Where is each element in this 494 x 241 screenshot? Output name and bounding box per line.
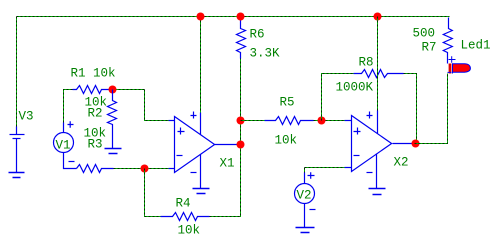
wire R5 left [241,120,265,122]
svg-text:R8: R8 [359,56,374,70]
source V1 [54,121,77,168]
svg-text:R2: R2 [88,107,103,121]
LED Led1 [448,56,471,73]
svg-text:3.3K: 3.3K [250,47,281,61]
svg-text:R7: R7 [422,41,437,55]
svg-text:10k: 10k [275,134,298,148]
svg-text:10k: 10k [178,224,201,238]
wire X1 power up [200,17,202,113]
svg-text:R4: R4 [176,197,191,211]
resistor R1 [73,86,111,94]
battery V3 [10,127,25,173]
wire X2 output to LED chain [415,74,448,144]
resistor R6 [237,17,246,59]
node X1 output [237,141,245,149]
wire R5 to X2 plus input [314,120,345,122]
wire X1 output [215,144,240,146]
node R6 bottom / R5 [237,117,245,125]
wire R8 right riser [404,74,417,144]
op-amp X1 [169,112,215,189]
wire R8 left riser [322,74,354,121]
svg-text:X2: X2 [394,156,409,170]
ground under V3 [9,173,25,178]
svg-text:R1 10k: R1 10k [71,67,116,81]
resistor R2 [108,90,117,149]
node R8 tap [318,117,326,125]
wire R1 left loop [64,90,73,123]
resistor R7 [443,18,452,57]
wire V3 top [16,17,18,127]
svg-text:Led1: Led1 [461,39,491,53]
resistor R3 [77,165,114,173]
svg-text:V3: V3 [19,110,34,124]
ground under X1 [193,189,210,194]
wire top rail [17,16,450,18]
node rail / X2 power [374,13,382,21]
node junction R1/R2 [109,86,117,94]
wire R4 right riser [210,59,241,217]
resistor R4 [161,213,210,221]
svg-text:X1: X1 [220,157,235,171]
svg-text:R5: R5 [280,96,295,110]
svg-text:V2: V2 [297,188,312,202]
ground under X2 [369,189,386,195]
svg-text:R3: R3 [88,138,103,152]
wire R3 to X1 minus input [114,168,169,170]
svg-text:R6: R6 [250,28,265,42]
wire X2 power up [377,17,379,111]
svg-text:V1: V1 [56,139,71,153]
wire V2 to X2 minus input [305,168,345,173]
node X2 output [412,140,420,148]
ground under R2 [105,149,122,154]
wire R4 left riser [145,169,161,217]
resistor R5 [265,117,314,125]
wire to X1 plus input [145,90,169,121]
op-amp X2 [345,111,392,189]
resistor R8 [354,70,404,78]
svg-text:1000K: 1000K [336,81,374,95]
svg-text:500: 500 [413,27,436,41]
node rail / X1 power [197,13,205,21]
source V2 [295,172,316,227]
node junction minus input / R4 [141,165,149,173]
wire R1 right to riser [111,89,145,91]
wire X2 output [393,143,415,145]
node rail / R6 [237,13,245,21]
ground under V2 [296,228,315,233]
